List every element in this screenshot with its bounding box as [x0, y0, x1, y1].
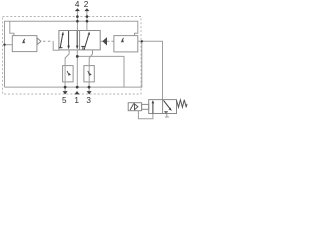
junction dot right riser — [141, 40, 143, 42]
port 1 up arrow — [75, 91, 80, 94]
left chamber vertical 2 with down arrow — [76, 31, 78, 46]
actuator plunger — [142, 104, 149, 109]
bottom bus junction dots — [64, 86, 67, 89]
wire port1 branch — [77, 56, 124, 87]
pilot box left — [12, 36, 37, 52]
left chamber T bar — [59, 47, 63, 49]
pilot triangle right — [103, 38, 107, 45]
pilot box left glyph — [23, 39, 25, 42]
port 5 lower line — [64, 82, 66, 91]
actuator box — [128, 103, 141, 111]
exhaust box left through line — [64, 66, 66, 82]
spring — [177, 100, 188, 108]
port 3 down arrow — [87, 91, 92, 94]
exhaust box right glyph — [88, 71, 90, 75]
svg-text:1: 1 — [74, 96, 79, 105]
port 3 line with jog — [89, 50, 92, 66]
wire bottom bus — [5, 41, 142, 87]
valve 3/2 divider — [162, 100, 164, 114]
valve 5/2 body — [59, 31, 100, 50]
svg-text:4: 4 — [75, 0, 80, 9]
right chamber diagonal with arrow — [84, 35, 88, 49]
port 2 line — [86, 11, 88, 31]
wire right box to 3/2 valve — [138, 41, 163, 99]
3/2 left chamber vertical with up arrow — [152, 103, 154, 113]
port 3 lower line — [88, 82, 90, 91]
pilot dashes left — [43, 40, 53, 42]
port 1 branch dot — [76, 55, 79, 58]
wire left box left port — [5, 44, 13, 46]
pilot box right glyph — [122, 38, 124, 41]
valve 5/2 divider — [79, 31, 81, 50]
exhaust box left glyph — [67, 71, 69, 75]
exhaust box left — [63, 66, 74, 82]
junction dots top — [76, 15, 79, 18]
actuator solenoid slash — [130, 103, 134, 110]
actuator pilot triangle — [135, 104, 138, 110]
3/2 exhaust stub with T — [166, 114, 168, 118]
svg-text:2: 2 — [84, 0, 89, 9]
pilot corner left — [53, 41, 59, 50]
exhaust box right — [84, 66, 94, 82]
junction dot left wire — [3, 44, 5, 46]
left chamber vertical 1 with down arrow — [68, 31, 70, 46]
port 4 line — [76, 11, 78, 31]
port 4 arrow — [75, 8, 80, 11]
3/2 right chamber diagonal with arrow — [164, 100, 170, 108]
port 5 down arrow — [63, 91, 68, 94]
valve 3/2 body — [149, 100, 177, 114]
wire pilot supply top loop — [5, 21, 138, 87]
3/2 right chamber blocked T — [165, 112, 167, 114]
svg-text:3: 3 — [86, 96, 91, 105]
port 1 line — [76, 50, 78, 87]
3/2 pilot feed wire below — [138, 111, 153, 119]
pilot box right — [114, 36, 138, 52]
exhaust box right through line — [88, 66, 90, 82]
right chamber blocked T — [82, 47, 84, 50]
port 2 arrow — [84, 8, 89, 11]
pilot dash right inner — [101, 40, 103, 42]
pilot triangle left — [37, 38, 41, 45]
left chamber diagonal with arrow — [60, 35, 62, 48]
wire left box top jog — [10, 21, 14, 35]
port 5 line with jog — [65, 50, 69, 66]
pilot dashes right — [107, 40, 114, 42]
enclosure dashed border — [3, 17, 142, 95]
svg-text:5: 5 — [62, 96, 67, 105]
